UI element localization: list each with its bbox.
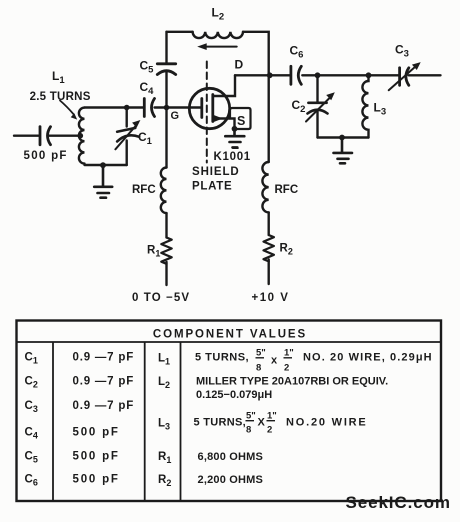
node D xyxy=(267,72,273,78)
svg-text:+10 V: +10 V xyxy=(252,292,290,304)
svg-text:2: 2 xyxy=(284,363,289,374)
label C1 xyxy=(138,130,153,147)
capacitor C1 variable xyxy=(115,128,139,142)
capacitor C6 xyxy=(291,66,301,84)
label R2 xyxy=(280,243,293,257)
label SHIELD xyxy=(192,166,240,178)
label L2 xyxy=(212,6,225,23)
svg-text:C1: C1 xyxy=(138,130,153,147)
label C3 xyxy=(395,43,409,60)
watermark SeekIC.com xyxy=(346,493,451,512)
wire C1 branch xyxy=(125,108,127,166)
table C6 row xyxy=(25,474,120,488)
svg-text:0 TO −5V: 0 TO −5V xyxy=(132,292,190,304)
svg-text:SeekIC.com: SeekIC.com xyxy=(346,493,451,512)
svg-text:C3: C3 xyxy=(25,400,38,414)
label 500 pF xyxy=(24,150,68,162)
svg-text:500 pF: 500 pF xyxy=(73,427,120,439)
svg-text:R1: R1 xyxy=(147,245,160,259)
table C1 row xyxy=(25,352,135,366)
table header COMPONENT VALUES xyxy=(153,329,307,341)
svg-text:C4: C4 xyxy=(140,80,155,97)
node C2 xyxy=(315,72,321,78)
wire C2 L3 bottom xyxy=(318,136,369,138)
inductor L3 xyxy=(362,75,368,137)
svg-text:RFC: RFC xyxy=(132,184,156,196)
arrow source xyxy=(214,115,223,122)
ground tank xyxy=(94,165,112,198)
shield dashed line xyxy=(206,62,208,163)
svg-text:C5: C5 xyxy=(140,58,155,75)
svg-text:G: G xyxy=(171,110,180,122)
svg-text:0.9 —7 pF: 0.9 —7 pF xyxy=(73,400,135,412)
svg-text:C6: C6 xyxy=(290,44,304,61)
wire input left xyxy=(14,134,81,136)
wire C2 branch xyxy=(316,75,318,137)
svg-text:5": 5" xyxy=(246,411,256,422)
label C6 xyxy=(290,44,304,61)
wire right RFC branch xyxy=(268,75,270,162)
node tap L1 xyxy=(78,133,84,139)
table L2 row xyxy=(158,376,388,402)
drain lead xyxy=(213,75,235,96)
table C2 row xyxy=(25,376,135,390)
svg-text:K1001: K1001 xyxy=(214,151,251,163)
svg-text:L1: L1 xyxy=(158,353,170,367)
resistor R1 xyxy=(161,238,171,264)
wire L2 top right xyxy=(243,32,269,76)
table L3 row xyxy=(158,411,368,436)
label D xyxy=(235,58,244,72)
svg-text:500 pF: 500 pF xyxy=(73,474,120,486)
svg-text:NO. 20 WIRE, 0.29μH: NO. 20 WIRE, 0.29μH xyxy=(303,352,433,364)
svg-text:1": 1" xyxy=(267,411,277,422)
table C4 row xyxy=(25,427,120,441)
node L3 xyxy=(366,72,372,78)
label K1001 xyxy=(214,148,251,163)
table C3 row xyxy=(25,400,135,414)
svg-text:RFC: RFC xyxy=(275,184,299,196)
wire RFC to R1 xyxy=(165,213,167,237)
ground output xyxy=(334,138,353,164)
svg-text:6,800 OHMS: 6,800 OHMS xyxy=(198,451,264,463)
table L1 row xyxy=(158,348,433,374)
svg-text:MILLER TYPE 20A107RBI OR EQUIV: MILLER TYPE 20A107RBI OR EQUIV. xyxy=(196,376,388,388)
wire tank bottom xyxy=(85,164,127,166)
channel bar xyxy=(211,95,214,122)
label R1 xyxy=(147,245,160,259)
svg-text:8: 8 xyxy=(256,363,261,374)
wire tank top xyxy=(85,106,144,108)
svg-text:8: 8 xyxy=(246,425,251,436)
svg-text:NO.20 WIRE: NO.20 WIRE xyxy=(286,417,368,429)
wire R2 down xyxy=(268,259,270,284)
table C5 row xyxy=(25,451,120,465)
svg-text:L2: L2 xyxy=(158,376,170,390)
wire D line xyxy=(235,74,441,76)
capacitor C2 variable xyxy=(308,103,328,114)
svg-text:C5: C5 xyxy=(25,451,38,465)
wire RFC to R2 xyxy=(268,212,270,235)
svg-text:C1: C1 xyxy=(25,352,38,366)
svg-text:0.9 —7 pF: 0.9 —7 pF xyxy=(73,352,135,364)
svg-text:2.5 TURNS: 2.5 TURNS xyxy=(30,91,91,103)
svg-text:PLATE: PLATE xyxy=(192,180,232,192)
node C1 top xyxy=(124,105,130,111)
svg-text:5 TURNS,: 5 TURNS, xyxy=(194,417,247,429)
label G xyxy=(171,110,180,122)
svg-text:0.125−0.079μH: 0.125−0.079μH xyxy=(196,389,272,401)
label 2.5 TURNS xyxy=(30,91,91,103)
label +10V xyxy=(252,292,290,304)
capacitor 500pF input xyxy=(40,127,51,145)
table R1 row xyxy=(158,451,263,465)
svg-text:C6: C6 xyxy=(25,474,38,488)
node G xyxy=(164,105,170,111)
transistor Q1 circle xyxy=(189,88,229,128)
svg-text:500 pF: 500 pF xyxy=(73,451,120,463)
arrow C3 xyxy=(389,62,421,90)
table R2 row xyxy=(158,474,263,488)
svg-text:2,200 OHMS: 2,200 OHMS xyxy=(198,474,264,486)
capacitor C3 variable xyxy=(400,68,409,86)
inductor L1 xyxy=(79,108,85,164)
wire R1 down xyxy=(165,262,167,285)
inductor RFC left xyxy=(161,168,167,214)
label PLATE xyxy=(192,180,232,192)
gate bar xyxy=(200,99,203,118)
svg-text:1": 1" xyxy=(284,348,294,359)
callout arrow 2.5 turns xyxy=(60,101,77,120)
svg-text:x: x xyxy=(271,355,278,367)
svg-text:5 TURNS,: 5 TURNS, xyxy=(195,352,249,364)
inductor RFC right xyxy=(262,162,268,212)
node source ground xyxy=(232,126,238,132)
svg-text:L2: L2 xyxy=(212,6,225,23)
svg-text:500 pF: 500 pF xyxy=(24,150,68,162)
wire left RFC branch xyxy=(165,108,167,168)
resistor R2 xyxy=(264,235,274,261)
svg-text:COMPONENT VALUES: COMPONENT VALUES xyxy=(153,329,307,341)
svg-text:S: S xyxy=(237,114,245,128)
svg-text:D: D xyxy=(235,58,244,72)
S box xyxy=(230,108,251,129)
svg-text:L3: L3 xyxy=(158,418,170,432)
label RFC left xyxy=(132,184,156,196)
ground source xyxy=(225,129,244,148)
svg-text:2: 2 xyxy=(267,425,272,436)
wire C5 branch xyxy=(165,32,167,108)
arrow L2 xyxy=(197,43,237,50)
arrow C2 xyxy=(306,92,335,121)
svg-text:C2: C2 xyxy=(292,98,306,115)
label C5 xyxy=(140,58,155,75)
svg-text:R2: R2 xyxy=(158,474,171,488)
svg-text:C2: C2 xyxy=(25,376,38,390)
wire L2 top left xyxy=(167,31,193,33)
svg-text:L1: L1 xyxy=(52,69,65,86)
label 0 TO -5V xyxy=(132,292,190,304)
svg-text:SHIELD: SHIELD xyxy=(192,166,240,178)
svg-text:R2: R2 xyxy=(280,243,293,257)
svg-text:C4: C4 xyxy=(25,427,38,441)
svg-text:X: X xyxy=(258,417,266,429)
node bottom ground xyxy=(339,135,345,141)
label C2 xyxy=(292,98,306,115)
svg-text:L3: L3 xyxy=(374,101,387,118)
label RFC right xyxy=(275,184,299,196)
table frame xyxy=(17,321,442,502)
svg-text:C3: C3 xyxy=(395,43,409,60)
capacitor C4 xyxy=(144,99,154,117)
inductor L2 xyxy=(193,32,243,38)
label S xyxy=(237,114,245,128)
label L3 xyxy=(374,101,387,118)
svg-text:5": 5" xyxy=(256,348,266,359)
node tank ground xyxy=(100,162,106,168)
wire C4 to gate xyxy=(155,106,202,108)
arrow C1 xyxy=(115,120,140,149)
source lead xyxy=(213,119,235,129)
capacitor C5 xyxy=(157,64,175,75)
svg-text:R1: R1 xyxy=(158,451,171,465)
label L1 xyxy=(52,69,65,86)
label C4 xyxy=(140,80,155,97)
svg-text:0.9 —7 pF: 0.9 —7 pF xyxy=(73,376,135,388)
